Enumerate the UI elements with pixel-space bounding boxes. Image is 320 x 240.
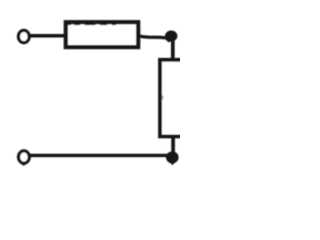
texture nubs on R1 top edge (67, 23, 116, 25)
junction tail artifact (165, 38, 172, 43)
return terminal (bottom-left open circle) (19, 151, 30, 163)
bottom wire from return terminal to bottom junction (29, 154, 171, 157)
node: top junction dot (165, 31, 177, 42)
resistor R1 (series, horizontal box) (66, 22, 138, 47)
speck artifact inside R2 (162, 96, 164, 100)
wire from R2 down to bottom junction (171, 135, 175, 156)
terminal nub artifact (22, 163, 24, 166)
input terminal (top-left open circle) (18, 30, 29, 42)
wire from R1 to top junction (137, 36, 167, 38)
node: bottom junction dot (166, 151, 179, 163)
teardrop tail under bottom junction (169, 162, 175, 166)
resistor R2 (shunt, vertical box cropped at right image edge) (160, 60, 188, 137)
wire from top junction down to R2 (171, 36, 175, 60)
wire from input terminal to R1 (29, 34, 68, 38)
